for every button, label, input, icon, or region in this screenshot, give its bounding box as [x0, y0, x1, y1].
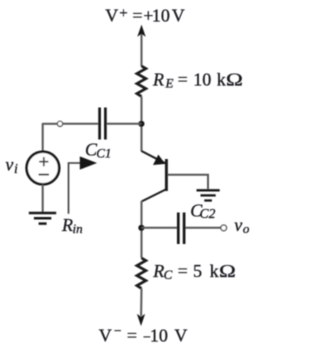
source minus sign [39, 174, 49, 176]
svg-text:V: V [105, 5, 118, 25]
svg-text:=: = [178, 70, 188, 90]
svg-text:V: V [174, 325, 187, 345]
resistor RC [137, 258, 146, 289]
arrowhead to V+ [137, 25, 145, 37]
svg-text:5: 5 [193, 261, 202, 281]
wire RC to V- arrow [140, 289, 142, 317]
svg-text:R: R [152, 261, 164, 281]
emitter arrowhead [153, 155, 165, 165]
svg-text:=: = [132, 5, 142, 25]
wire CC1 to node [107, 123, 142, 125]
svg-text:V: V [99, 325, 112, 345]
node junction dot at CC2 [138, 225, 144, 231]
svg-text:Ω: Ω [226, 70, 244, 90]
wire base to ground [168, 175, 208, 189]
wire terminal to CC1 [63, 123, 98, 125]
svg-text:10: 10 [150, 325, 168, 345]
arrowhead to V- [137, 314, 145, 326]
svg-text:10: 10 [193, 70, 211, 90]
node V+ supply label [105, 5, 185, 25]
svg-text:k: k [210, 261, 219, 281]
svg-text:Ω: Ω [219, 261, 236, 281]
Rin arrowhead [80, 156, 97, 169]
svg-text:10: 10 [152, 5, 170, 25]
wire collector down to RC [140, 201, 142, 258]
wire node to CC2 [141, 227, 177, 229]
wire source to ground [42, 185, 44, 213]
input terminal open circle [57, 121, 62, 126]
wire CC2 to output terminal [186, 227, 221, 229]
collector slant [142, 190, 166, 202]
base bar [165, 159, 168, 191]
svg-text:=: = [178, 261, 188, 281]
svg-text:C: C [164, 267, 173, 282]
svg-text:R: R [152, 70, 164, 90]
svg-text:E: E [165, 76, 174, 91]
label RC value [152, 261, 236, 282]
node V- supply label [99, 323, 188, 346]
ground (base) [197, 190, 220, 200]
wire corner down to source [42, 123, 44, 151]
wire RE bottom to emitter bend [140, 97, 142, 152]
svg-text:−: − [114, 323, 122, 338]
ground (source) [29, 213, 56, 224]
transistor Q1 (pnp) emitter wire [142, 151, 166, 163]
capacitor CC2 [178, 213, 184, 245]
wire top supply arrow shaft [140, 34, 142, 67]
output terminal open circle [221, 225, 227, 231]
svg-text:V: V [172, 5, 185, 25]
svg-text:=: = [127, 325, 137, 345]
wire input horizontal left segment [43, 123, 58, 125]
label RE value [152, 70, 243, 91]
resistor RE [137, 66, 146, 97]
capacitor CC1 [100, 108, 106, 140]
source vi circle [27, 152, 60, 185]
svg-text:k: k [217, 70, 226, 90]
source plus sign [39, 157, 48, 166]
svg-text:+: + [119, 5, 127, 21]
Rin arrow elbow [69, 163, 82, 214]
node junction dot at CC1 [138, 121, 144, 127]
